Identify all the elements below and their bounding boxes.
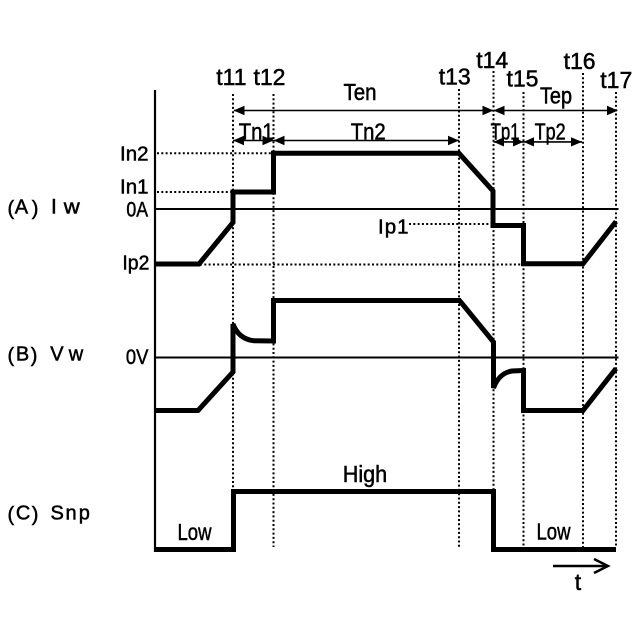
label In1 bbox=[120, 176, 149, 199]
svg-text:Ip2: Ip2 bbox=[122, 252, 149, 275]
wire t14 dotted bbox=[493, 71, 495, 489]
label t16 bbox=[564, 48, 596, 74]
svg-text:Tn1: Tn1 bbox=[239, 119, 274, 145]
svg-text:p: p bbox=[79, 503, 90, 525]
label Tp2 bbox=[535, 118, 566, 144]
svg-text:I: I bbox=[51, 196, 57, 219]
label t axis bbox=[575, 569, 582, 595]
arrow Tn1 bbox=[233, 136, 274, 146]
node Ip1 dotted level bbox=[409, 223, 494, 225]
svg-text:0V: 0V bbox=[126, 345, 149, 369]
label Ip1 bbox=[378, 216, 409, 239]
wire t13 dotted bbox=[458, 89, 460, 547]
svg-text:t12: t12 bbox=[254, 64, 286, 90]
label 0V bbox=[126, 345, 149, 369]
label (C) Snp bbox=[8, 503, 90, 527]
svg-text:t17: t17 bbox=[600, 67, 632, 93]
svg-text:): ) bbox=[32, 198, 39, 220]
label t11 bbox=[216, 64, 246, 90]
svg-text:t11: t11 bbox=[216, 64, 246, 90]
svg-text:0A: 0A bbox=[126, 198, 148, 222]
node 0A line bbox=[154, 208, 619, 210]
svg-text:w: w bbox=[68, 344, 84, 366]
svg-text:(: ( bbox=[8, 345, 15, 367]
label t15 bbox=[507, 66, 539, 92]
svg-text:t15: t15 bbox=[507, 66, 539, 92]
svg-text:w: w bbox=[63, 197, 81, 219]
svg-text:In2: In2 bbox=[120, 142, 149, 165]
svg-text:t14: t14 bbox=[476, 47, 508, 73]
arrow Tep bbox=[494, 106, 619, 116]
label (B) Vw bbox=[8, 344, 84, 368]
node In1 dotted level bbox=[157, 191, 233, 193]
svg-text:t13: t13 bbox=[439, 64, 471, 90]
svg-text:B: B bbox=[16, 344, 29, 366]
svg-text:(: ( bbox=[8, 198, 15, 220]
wire t16 dotted bbox=[582, 73, 584, 547]
arrow Tp1 bbox=[494, 137, 524, 146]
node Ip2 dotted level bbox=[157, 264, 524, 266]
label Low right bbox=[537, 519, 572, 545]
svg-text:): ) bbox=[32, 504, 39, 526]
svg-text:In1: In1 bbox=[120, 176, 149, 199]
label Tn1 bbox=[239, 119, 274, 145]
label t17 bbox=[600, 67, 632, 93]
arrow Ten bbox=[234, 106, 494, 116]
axis bbox=[154, 90, 156, 552]
label High bbox=[343, 461, 387, 487]
svg-text:(: ( bbox=[8, 504, 15, 526]
wire t17 dotted bbox=[615, 92, 617, 547]
label 0A bbox=[126, 198, 148, 222]
label (A) Iw bbox=[8, 196, 81, 221]
arrow Tp2 bbox=[524, 137, 583, 146]
svg-text:Ip1: Ip1 bbox=[378, 216, 409, 239]
label Tn2 bbox=[351, 119, 386, 145]
wire t12 dotted bbox=[273, 94, 275, 547]
label t13 bbox=[439, 64, 471, 90]
wire t11 dotted bbox=[232, 94, 234, 489]
wire t15 dotted bbox=[523, 92, 525, 547]
svg-text:n: n bbox=[66, 503, 77, 525]
label t14 bbox=[476, 47, 508, 73]
svg-text:Tp2: Tp2 bbox=[535, 118, 566, 144]
label In2 bbox=[120, 142, 149, 165]
svg-text:V: V bbox=[50, 344, 64, 366]
svg-text:Tep: Tep bbox=[540, 83, 572, 109]
label Tep bbox=[540, 83, 572, 109]
svg-text:S: S bbox=[51, 503, 64, 525]
svg-text:Low: Low bbox=[178, 519, 213, 545]
svg-text:Ten: Ten bbox=[344, 79, 377, 105]
svg-text:t16: t16 bbox=[564, 48, 596, 74]
arrow t (time axis) bbox=[553, 559, 608, 573]
node 0V line bbox=[154, 357, 619, 359]
label Ip2 bbox=[122, 252, 149, 275]
svg-text:Tn2: Tn2 bbox=[351, 119, 386, 145]
node In2 dotted level bbox=[157, 152, 274, 154]
label Low left bbox=[178, 519, 213, 545]
label t12 bbox=[254, 64, 286, 90]
svg-text:C: C bbox=[16, 503, 30, 525]
svg-text:t: t bbox=[575, 569, 582, 595]
svg-text:High: High bbox=[343, 461, 387, 487]
label Tp1 bbox=[491, 118, 520, 144]
waveform Vw (B) bbox=[155, 301, 616, 411]
waveform Iw (A) bbox=[155, 153, 616, 264]
svg-text:Low: Low bbox=[537, 519, 572, 545]
waveform Snp (C) bbox=[155, 492, 616, 550]
label Ten bbox=[344, 79, 377, 105]
svg-text:Tp1: Tp1 bbox=[491, 118, 520, 144]
arrow Tn2 bbox=[274, 136, 460, 146]
svg-text:A: A bbox=[15, 197, 29, 219]
svg-text:): ) bbox=[31, 345, 38, 367]
